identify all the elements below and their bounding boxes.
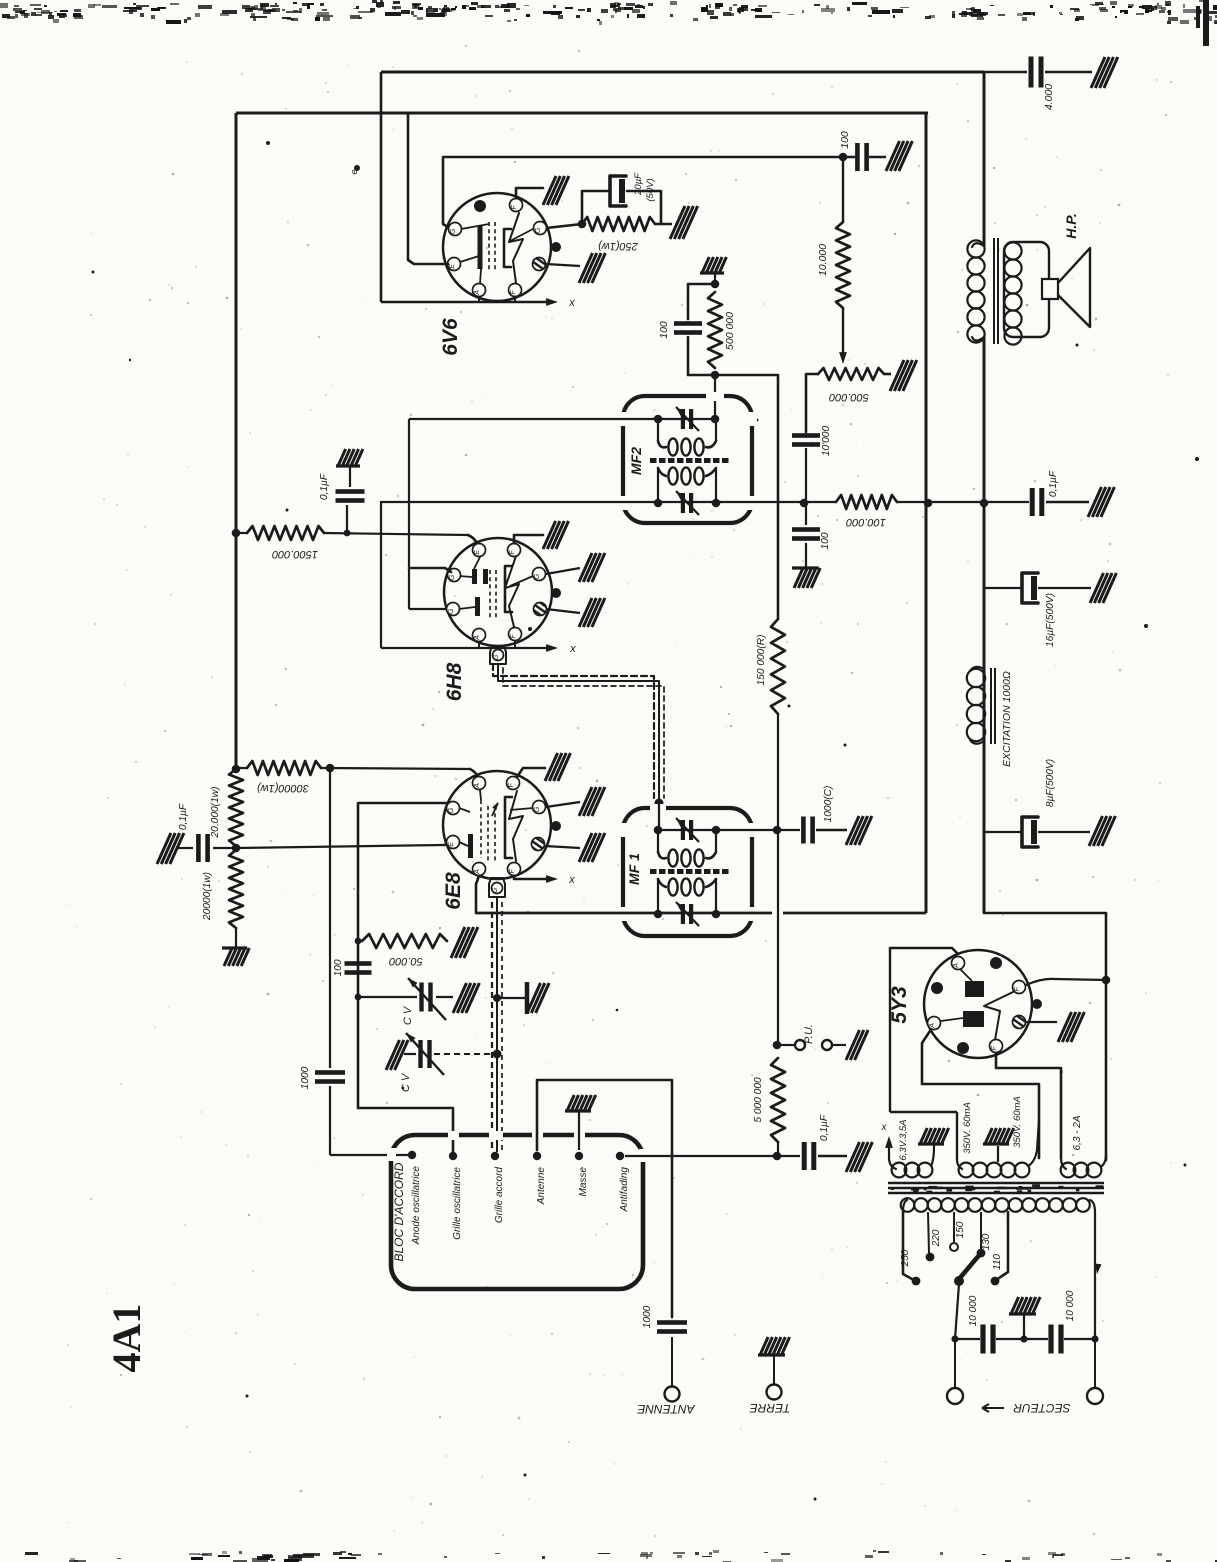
capacitor 8uF(500V) <box>984 831 1021 833</box>
scan noise top edge <box>0 0 1217 25</box>
HP driver <box>1042 279 1058 299</box>
junction grid cap <box>344 530 351 537</box>
wire 6E8 anode to MF1 bottom line <box>476 876 479 913</box>
resistor 5 000 000 <box>773 1041 782 1050</box>
svg-text:C V: C V <box>400 1072 412 1092</box>
ground 6E8 G right <box>579 787 605 816</box>
resistor 10000 screen feed <box>842 157 844 222</box>
svg-text:G: G <box>492 887 499 893</box>
6E8 shaded pin <box>532 838 545 851</box>
field coil excitation 1000 ohms <box>967 669 985 687</box>
svg-text:1000: 1000 <box>300 1066 311 1089</box>
svg-text:10 000: 10 000 <box>1065 1290 1076 1321</box>
wire HP down B+ rail <box>983 337 986 913</box>
terminal 4 antenne <box>533 1152 541 1160</box>
capacitor 10 000 mains left <box>980 1325 985 1354</box>
svg-text:250: 250 <box>900 1249 911 1267</box>
wire B+ corner to rectifier <box>984 913 1106 1160</box>
wire MF2 secondary to 6H8 grids x=409 <box>408 419 410 609</box>
wire left frame x=236 <box>235 113 238 769</box>
variable capacitor CV1 <box>419 983 423 1012</box>
6V6 pin G2 <box>534 222 547 235</box>
wire shield line padder to ground <box>493 994 501 1002</box>
MF1 top coil <box>657 830 659 852</box>
svg-text:10 000: 10 000 <box>968 1295 979 1326</box>
ground antifading cap <box>846 1142 872 1172</box>
HT winding 350V+350V <box>957 1160 962 1169</box>
6E8 pin G left upper <box>447 802 460 815</box>
svg-text:130: 130 <box>981 1233 992 1250</box>
6V6 pin F top <box>510 199 523 212</box>
capacitor 100 parallel <box>688 284 715 319</box>
ground 6V6 F top <box>543 176 569 205</box>
svg-text:100: 100 <box>658 321 670 339</box>
5Y3 filament <box>984 992 1013 1040</box>
svg-text:4A1: 4A1 <box>104 1304 149 1373</box>
wire B+ top rail y=72 <box>381 71 984 74</box>
svg-text:x: x <box>568 874 575 886</box>
ground pot <box>890 360 917 391</box>
svg-text:1000(C): 1000(C) <box>823 786 834 823</box>
wire 6V6 F bottom stub <box>514 296 516 302</box>
svg-text:10.000: 10.000 <box>817 244 829 276</box>
svg-text:4.000: 4.000 <box>1043 84 1055 110</box>
wire ground to CV2 <box>404 1053 416 1055</box>
SECTEUR terminals <box>954 1339 956 1387</box>
ground 6H8 G right <box>579 553 605 582</box>
ground 50.000 <box>451 927 478 958</box>
6E8 pin A top <box>473 777 486 790</box>
ground 6E8 top right <box>545 753 571 781</box>
shielded lead 6E8 grid to bloc <box>496 898 498 1152</box>
filament x arrow <box>888 1140 890 1158</box>
svg-text:F: F <box>510 634 517 639</box>
svg-text:F: F <box>508 783 515 788</box>
svg-text:C V: C V <box>402 1005 414 1025</box>
wire 6V6 E pin to y=113 <box>408 113 448 264</box>
svg-text:20.000(1w): 20.000(1w) <box>210 787 221 839</box>
resistor 500 000 <box>708 292 722 368</box>
5Y3 pin F right <box>1013 981 1026 994</box>
wire junction to MF2 <box>714 375 716 419</box>
capacitor 16uF(500V) <box>984 587 1021 589</box>
junction CV1 <box>355 994 362 1001</box>
capacitor 0,1uF osc grid <box>213 847 236 849</box>
ground 6E8 shaded <box>579 833 605 862</box>
wire y=157 screen line <box>443 156 855 158</box>
MF2 bottom variable capacitor <box>681 493 685 513</box>
MF1 top variable capacitor <box>681 820 685 840</box>
primary tap 150 <box>953 1212 955 1242</box>
primary tap 250 <box>903 1212 912 1279</box>
svg-text:e: e <box>349 169 359 174</box>
junction 500k bottom <box>711 371 720 380</box>
svg-text:F: F <box>509 550 516 555</box>
svg-text:0,1µF: 0,1µF <box>319 473 330 500</box>
ground mains filter <box>1009 1297 1040 1314</box>
svg-text:6,3V.3,5A: 6,3V.3,5A <box>898 1119 909 1160</box>
svg-text:100: 100 <box>839 131 851 149</box>
MF2 box <box>623 396 752 523</box>
HT center tap ground stem <box>997 1146 999 1162</box>
MF1 box <box>623 808 752 936</box>
primary tap 110 <box>999 1212 1008 1278</box>
6H8 grid cap connector <box>490 646 506 664</box>
power transformer core <box>888 1182 1104 1185</box>
wire masse to ground <box>578 1112 580 1150</box>
svg-text:5 000 000: 5 000 000 <box>753 1077 764 1123</box>
wire CV1 to ground <box>436 996 453 998</box>
wire to decoupling cap <box>897 501 1029 503</box>
svg-text:TERRE: TERRE <box>749 1401 791 1415</box>
tube 5Y3 envelope <box>924 950 1032 1058</box>
5Y3 anode links <box>960 969 972 981</box>
variable capacitor CV2 <box>418 1040 422 1068</box>
svg-text:10'000: 10'000 <box>821 426 832 457</box>
6V6 cathode <box>478 225 483 269</box>
wire to antenne socket <box>671 1337 673 1387</box>
ground heater winding <box>918 1128 949 1144</box>
MF2 bottom coil <box>657 468 659 503</box>
rectifier heater winding 6,3-2A <box>1061 1158 1066 1169</box>
wire junction to x=778 rail <box>715 375 778 619</box>
capacitor 100 osc tank <box>345 961 372 966</box>
svg-text:0,1µF: 0,1µF <box>819 1114 830 1141</box>
wire resistor to pot wiper arrow <box>842 308 844 356</box>
wire 6V6 filament line y=302 with arrow x <box>381 301 552 303</box>
svg-text:x: x <box>881 1122 888 1133</box>
svg-text:SECTEUR: SECTEUR <box>1013 1401 1071 1415</box>
6E8 dot pin <box>551 821 561 831</box>
wire antifading line <box>625 1155 773 1157</box>
svg-text:F: F <box>510 290 517 295</box>
svg-text:A: A <box>953 963 960 969</box>
primary right lead <box>1094 1212 1096 1339</box>
svg-text:F: F <box>1014 987 1021 992</box>
wire pot right to ground <box>884 373 891 376</box>
svg-text:ANTENNE: ANTENNE <box>636 1402 695 1416</box>
wire 5Y3 anode 2 path <box>922 1028 1039 1158</box>
svg-text:Grille accord: Grille accord <box>494 1167 505 1224</box>
wire 6H8 F top to ground <box>514 535 543 543</box>
wire shield dot to MF1 top node <box>658 803 660 830</box>
svg-text:250(1w): 250(1w) <box>598 240 639 252</box>
6H8 pin F top <box>508 544 521 557</box>
6V6 pin E <box>448 258 461 271</box>
6E8 pin G right <box>533 801 546 814</box>
6E8 pin F bottom <box>508 863 521 876</box>
mains filter ground stub <box>1020 1335 1027 1342</box>
wire to bloc terminal 1 <box>330 1154 408 1156</box>
svg-text:100.000: 100.000 <box>845 516 886 528</box>
svg-text:E: E <box>449 264 456 269</box>
stub to G upper <box>409 568 451 572</box>
capacitor 0,1uF decoupling <box>1030 488 1035 516</box>
terminal 5 masse <box>575 1152 583 1160</box>
5Y3 shaded pin <box>1013 1016 1026 1029</box>
svg-text:A: A <box>474 635 481 641</box>
svg-text:16µF(500V): 16µF(500V) <box>1045 593 1056 647</box>
svg-text:350V. 60mA: 350V. 60mA <box>962 1102 973 1154</box>
svg-text:150 000(R): 150 000(R) <box>756 635 767 686</box>
TERRE terminal <box>767 1385 782 1400</box>
ground 8uF <box>1089 816 1115 846</box>
wire AVC/detector line y=503 <box>381 501 804 503</box>
voltage selector lever <box>959 1253 981 1279</box>
6H8 pin A <box>473 629 486 642</box>
resistor 250(1w) cathode <box>582 217 655 231</box>
wire MF1 top to HT rail x=778 <box>716 829 773 831</box>
wire 6V6 grid feed corner x=443 <box>443 157 449 228</box>
6H8 pin E top <box>473 544 486 557</box>
resistor 20.000(1w) upper <box>229 769 243 846</box>
ground P.U. <box>846 1030 868 1060</box>
6H8 grid dashed <box>489 570 491 620</box>
ground 6V6 shaded pin <box>579 253 605 283</box>
terminal 1 anode oscillatrice <box>408 1151 416 1159</box>
wire ground to junction <box>714 273 716 284</box>
tube 6V6 envelope <box>443 193 551 301</box>
6H8 anode <box>505 566 512 612</box>
wire to lower ground <box>235 928 237 948</box>
6H8 pin F bottom <box>509 628 522 641</box>
wire 6E8 shaded to ground <box>545 846 580 848</box>
wire 5Y3 shaded to ground <box>1026 1021 1057 1023</box>
MF1 core <box>650 869 657 874</box>
6E8 inner arrow <box>492 803 498 816</box>
mains filter left leg <box>955 1284 959 1339</box>
capacitor 10'000 coupling <box>792 433 820 438</box>
primary winding <box>903 1200 907 1212</box>
MF2 top tuning cap line <box>409 418 658 420</box>
capacitor 0,1uF antifading <box>802 1142 807 1170</box>
resistor 150 000(R) <box>771 619 785 714</box>
6V6 heater <box>509 213 523 283</box>
resistor 30000(1w) osc anode <box>232 765 241 774</box>
ground 6H8 shaded <box>579 598 605 627</box>
capacitor 0,1uF grid <box>346 505 348 533</box>
junction osc grid line <box>232 844 241 853</box>
5Y3 dot pins <box>990 957 1002 969</box>
wire to CV1 <box>358 996 417 998</box>
wire 6E8 top right pin to ground <box>517 768 545 777</box>
6H8 heater <box>505 556 519 627</box>
wire 6E8 filament arrow <box>514 876 552 879</box>
svg-text:E: E <box>474 550 481 555</box>
ground cathode 250 <box>670 206 698 239</box>
excitation core <box>990 668 992 744</box>
stray specks <box>92 271 95 274</box>
wire 5Y3 filament bottom <box>996 1052 1061 1158</box>
svg-text:30000(1w): 30000(1w) <box>257 782 309 794</box>
wire osc anode coupling x=330 <box>329 768 331 1068</box>
svg-text:MF2: MF2 <box>628 447 644 475</box>
wire cap to AVC line <box>805 448 807 503</box>
6E8 pin E left lower <box>447 836 460 849</box>
wire 5Y3 filament top to B+ <box>1026 979 1055 985</box>
6E8 heater <box>509 791 523 861</box>
scan noise bottom edge <box>25 1550 1217 1562</box>
6V6 pin G1 <box>449 223 462 236</box>
6E8 pin A bottom <box>473 863 486 876</box>
wire cathode bypass branch <box>582 191 608 224</box>
ground CV2 <box>386 1040 408 1070</box>
svg-text:G: G <box>534 806 541 812</box>
wire 6V6 shaded pin to ground <box>546 264 580 266</box>
6E8 pin top right <box>507 777 520 790</box>
6H8 F bottom stub <box>514 640 516 648</box>
svg-text:P.U.: P.U. <box>803 1024 815 1044</box>
svg-text:A: A <box>474 869 481 875</box>
wire pot left branch down <box>806 374 818 432</box>
wire 6V6 screen frame x=381 <box>380 72 383 302</box>
ground 0,1uF grid <box>336 449 363 466</box>
svg-text:E: E <box>448 842 455 847</box>
ground shield padder <box>527 982 549 1014</box>
6V6 shaded pin <box>533 258 546 271</box>
ground 0,1uF osc <box>157 833 184 864</box>
6H8 pin G left upper <box>448 569 461 582</box>
capacitor 4000 <box>1029 57 1034 88</box>
ground terre <box>758 1337 790 1355</box>
svg-text:G: G <box>450 228 457 234</box>
6E8 internal links <box>459 808 470 812</box>
svg-text:20000(1w): 20000(1w) <box>202 872 213 921</box>
svg-text:x: x <box>568 297 575 309</box>
HP output transformer primary <box>967 240 984 257</box>
ground masse <box>565 1095 596 1111</box>
svg-text:F: F <box>511 205 518 210</box>
MF1 bottom variable capacitor <box>681 904 685 924</box>
wire grid resistor 1500.000 line <box>236 532 247 534</box>
capacitor 1000 antenne <box>657 1320 687 1325</box>
svg-text:6E8: 6E8 <box>442 872 465 910</box>
HP transformer core <box>993 238 995 344</box>
MF2 top variable capacitor <box>681 409 685 429</box>
svg-text:F: F <box>509 869 516 874</box>
svg-text:6H8: 6H8 <box>443 662 466 701</box>
svg-text:0,1µF: 0,1µF <box>1048 470 1059 497</box>
5Y3 plate 1 <box>965 981 984 997</box>
MF1 top cap line <box>658 829 716 831</box>
wire 6E8 G right to ground <box>546 802 580 807</box>
ground 16uF <box>1090 573 1116 603</box>
resistor 20000(1w) lower <box>229 850 243 928</box>
svg-text:G: G <box>449 574 456 580</box>
primary tap 220 <box>928 1212 929 1253</box>
capacitor 100 (screen bypass) <box>855 143 860 171</box>
svg-text:350V. 60mA: 350V. 60mA <box>1012 1096 1023 1148</box>
stub to G lower <box>409 608 447 610</box>
svg-text:220: 220 <box>931 1229 942 1247</box>
svg-text:110: 110 <box>992 1254 1003 1270</box>
svg-text:0,1µF: 0,1µF <box>178 803 189 830</box>
svg-text:G: G <box>534 573 541 579</box>
5Y3 pin A top <box>952 957 965 970</box>
ground for 100 cap <box>886 141 912 171</box>
ground 100 AVC <box>792 568 820 588</box>
6H8 diode plates <box>472 569 477 584</box>
P.U. pickup jacks <box>778 1044 794 1046</box>
ground 500k top <box>700 257 726 273</box>
svg-text:A: A <box>474 783 481 789</box>
capacitor 1000 osc <box>315 1070 345 1075</box>
svg-text:H.P.: H.P. <box>1063 213 1079 238</box>
resistor 50.000 osc grid <box>355 938 362 945</box>
terminal 6 antifading <box>616 1152 624 1160</box>
MF2 top coil <box>657 419 659 441</box>
svg-text:6,3 - 2A: 6,3 - 2A <box>1072 1115 1083 1150</box>
svg-text:BLOC D'ACCORD: BLOC D'ACCORD <box>392 1162 406 1261</box>
6V6 internal links <box>460 256 479 262</box>
wire MF1 bottom line y=914 <box>476 912 772 915</box>
ground 6H8 F top <box>543 521 569 549</box>
wire 6H8 G right to ground <box>546 568 580 574</box>
svg-text:G: G <box>535 227 542 233</box>
6H8 cathode <box>475 597 480 616</box>
svg-text:G: G <box>448 807 455 813</box>
right edge streak <box>1203 0 1209 46</box>
svg-text:G: G <box>448 608 455 614</box>
wire antenne terminal loop <box>537 1080 672 1317</box>
6H8 pin G right <box>533 568 546 581</box>
ground 0,1uF <box>1088 487 1114 517</box>
MF1 bottom coil <box>657 879 659 914</box>
capacitor 20uF 50V electrolytic <box>610 176 626 206</box>
5Y3 pin F bottom <box>990 1040 1003 1053</box>
capacitor 1000(C) <box>801 817 806 844</box>
svg-text:100: 100 <box>820 532 831 549</box>
svg-text:x: x <box>569 643 576 655</box>
MF2 core <box>650 458 657 463</box>
6V6 anode <box>504 229 511 267</box>
6H8 shaded pin <box>534 603 547 616</box>
ground 20000 bottom <box>222 948 249 966</box>
svg-text:F: F <box>991 1046 998 1051</box>
wire x=778 rail down <box>777 714 779 1045</box>
6E8 grids dashed <box>480 800 482 858</box>
wire left frame y=113 <box>236 112 928 115</box>
wire 6H8 shaded to ground <box>546 609 580 613</box>
junction 10000 top <box>839 153 848 162</box>
6H8 internal links <box>459 576 472 577</box>
svg-text:8µF(500V): 8µF(500V) <box>1045 759 1056 807</box>
HP transformer secondary <box>1004 242 1021 259</box>
terminal 2 grille oscillatrice <box>449 1152 457 1160</box>
heater winding 6,3V 3,5A <box>889 1158 896 1169</box>
6H8 A stub <box>478 641 480 648</box>
svg-text:150: 150 <box>955 1221 966 1238</box>
svg-text:6V6: 6V6 <box>439 318 462 356</box>
ANTENNE terminal <box>665 1387 680 1402</box>
wire 6V6 F top to ground <box>516 188 543 198</box>
svg-text:G: G <box>493 654 500 660</box>
wire to cathode ground <box>655 223 672 226</box>
6E8 grid cap connector <box>489 878 505 897</box>
svg-text:Masse: Masse <box>578 1167 589 1197</box>
ground HT center tap <box>983 1128 1014 1144</box>
ground CV1 <box>453 983 479 1013</box>
ground 5Y3 <box>1058 1012 1084 1042</box>
resistor 100.000 <box>836 495 897 509</box>
potentiometer 500.000 volume <box>818 368 884 380</box>
6E8 cathode <box>468 834 473 858</box>
svg-text:20µF: 20µF <box>633 172 644 196</box>
wire 6V6 G2 to cathode resistor node <box>546 224 582 228</box>
svg-text:Antenne: Antenne <box>536 1167 547 1206</box>
wire 5Y3 anode frame left <box>890 948 957 953</box>
dashed link CV2 to shielded lead <box>434 1053 491 1055</box>
